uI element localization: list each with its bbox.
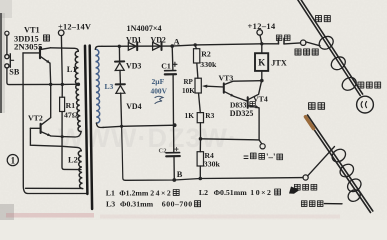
potentiometer RP (195, 78, 201, 93)
transformer winding L1 lower half (76, 84, 81, 131)
transistor VT4 (248, 81, 262, 108)
svg-text:RP: RP (184, 78, 194, 86)
junction: node A (170, 44, 174, 48)
junction: R2 branch on rail (194, 43, 197, 46)
label bamboo pole (top, CJK) (315, 16, 330, 22)
svg-text:K: K (258, 58, 265, 68)
diode VD4 (116, 84, 125, 126)
metal ring 2 on bottom pole (338, 162, 356, 180)
bamboo pole butt (brown) (306, 117, 314, 129)
svg-text:24×2: 24×2 (150, 189, 172, 198)
diode VD2 (153, 42, 162, 50)
svg-text:L1: L1 (106, 189, 115, 198)
label metal ring (top, CJK) (358, 82, 381, 88)
resistor R3 (197, 113, 203, 123)
wire: R1 top to +12V rail (61, 84, 63, 97)
label of output terminal (CJK) (244, 152, 283, 162)
wire: R1 bottom down to L2 centre tap (62, 112, 81, 170)
wire: VT4 emitter down (259, 108, 262, 144)
svg-text:L2: L2 (199, 188, 208, 197)
metal ring 3 on bottom pole (345, 176, 363, 194)
wire: RP to R3 (199, 93, 201, 113)
label 3DD15 or (14, 34, 50, 43)
resistor R1 (60, 97, 65, 111)
value 2uF 400V (blue pen) (151, 77, 168, 104)
battery terminal +12-14 (right) (257, 30, 263, 36)
wire: R4 top (199, 139, 201, 152)
transistor VT1 (23, 47, 51, 63)
transformer winding L2 (78, 151, 82, 189)
wire: SB terminal down to switch (6, 35, 8, 54)
svg-text:VT2: VT2 (28, 114, 43, 123)
scan edge artifacts (0, 0, 12, 18)
wire: R4 bottom to rail (199, 166, 201, 179)
transistor VT2 (30, 118, 51, 136)
wire: mid node to C2 (173, 125, 175, 152)
svg-text:L3: L3 (106, 200, 115, 209)
wire: R3 down to emitter node (199, 123, 201, 139)
winding data text line 1 (106, 187, 300, 198)
junction: VD column crossing mid wire (120, 125, 123, 128)
svg-text:VD4: VD4 (126, 102, 141, 111)
svg-text:WWW·DZ3W·: WWW·DZ3W· (58, 123, 238, 153)
svg-text:R2: R2 (201, 49, 211, 58)
transformer winding L1 upper half (75, 51, 78, 84)
junction: rail to L1 centre tap (77, 83, 81, 87)
svg-text:'–': '–' (266, 152, 276, 162)
svg-text:B: B (177, 170, 183, 179)
resistor R2 (194, 49, 200, 63)
wire: bottom rail B (125, 178, 303, 181)
terminal HV negative (303, 175, 308, 180)
wire: top rail A to relay node (172, 44, 278, 46)
C2 polarity mark (175, 148, 178, 151)
svg-text:1N4007×4: 1N4007×4 (127, 24, 162, 33)
svg-text:Φ1.2mm: Φ1.2mm (119, 189, 149, 198)
RP wiper arrow from VT3 base (202, 85, 224, 88)
circled 1 battery mark (7, 155, 18, 166)
junction: relay/+12-14 node on rail (260, 42, 263, 45)
bamboo pole (top electrode) (297, 0, 363, 96)
wire: top rectifier rail L3 to A (102, 45, 172, 47)
wire: HV positive to electrode ring (306, 42, 320, 46)
wire: A down to C1 (171, 46, 174, 70)
label metal ring (bottom, CJK) with pointer (301, 201, 342, 207)
wire: VT2 emitter to R1 line and L1 bottom (51, 132, 81, 137)
wire: rail to relay top (261, 44, 263, 53)
resistor R4 (197, 152, 203, 166)
junction: C2 on bottom rail (172, 178, 176, 182)
junction: VT1 emitter on +12V rail (49, 83, 52, 86)
capacitor C1 (165, 71, 176, 75)
svg-text:SB: SB (9, 68, 20, 77)
label D833 or (230, 101, 255, 110)
svg-text:JTX: JTX (271, 59, 287, 68)
svg-text:47Ω: 47Ω (64, 111, 78, 120)
svg-text:C2: C2 (159, 148, 167, 155)
relay contact (chuidian) (278, 38, 300, 44)
wire: L3 top lead to rectifier rail (95, 46, 102, 49)
wire: C2 to bottom rail (173, 156, 175, 180)
junction: mid node on A column (173, 123, 177, 127)
transformer winding L3 secondary (blue) (95, 49, 100, 123)
svg-text:400V: 400V (151, 86, 168, 95)
svg-text:R3: R3 (205, 111, 214, 120)
junction: R4 on bottom rail (199, 177, 203, 181)
svg-text:C1: C1 (161, 62, 171, 71)
wire: VD column down to bottom rail (122, 126, 125, 180)
wire: doubler mid horizontal (L3 bottom to A column) (103, 125, 176, 127)
wire: VT1 emitter down through rail to VT2 collector (49, 63, 52, 117)
wire: VT1 base down the left side to bottom loop (23, 53, 87, 194)
svg-text:1: 1 (11, 156, 16, 166)
battery terminal +12-14V (left) (58, 30, 64, 36)
label HV negative (CJK) (294, 184, 316, 190)
svg-text:2μF: 2μF (152, 77, 165, 86)
svg-text:2N3055: 2N3055 (14, 42, 43, 52)
svg-text:L3: L3 (105, 82, 114, 91)
wire: right terminal to rail (260, 35, 262, 44)
wire: L3 bottom lead to doubler mid node (96, 123, 103, 128)
metal ring 1 on bottom pole (330, 147, 348, 165)
svg-text:330k: 330k (200, 60, 217, 69)
wire: +12V horizontal rail to transformer tap (51, 83, 78, 85)
svg-text:VT1: VT1 (24, 26, 40, 35)
svg-text:10×2: 10×2 (250, 188, 272, 197)
svg-text:L2: L2 (68, 155, 78, 164)
svg-text:VD3: VD3 (126, 61, 141, 70)
svg-text:600–700: 600–700 (162, 200, 193, 209)
svg-text:Φ0.51mm: Φ0.51mm (214, 188, 248, 197)
diode VD3 (115, 46, 124, 84)
C1 polarity + (173, 62, 177, 66)
junction: VD3 branch on top rail (118, 45, 121, 48)
metal ring 1 on top pole (317, 34, 336, 52)
wire: HV negative to bottom pole (308, 147, 335, 176)
junction: collectors to relay (260, 79, 264, 83)
junction: emitter/R1 line (61, 135, 64, 138)
svg-text:330k: 330k (204, 160, 221, 169)
metal ring face-on at pole tip (357, 96, 374, 113)
winding data text line 2 (106, 200, 201, 209)
label contact (CJK) (276, 35, 290, 40)
wire: bottom loop inner line to L2 bottom (26, 187, 82, 189)
svg-text:+12–14: +12–14 (248, 22, 277, 31)
terminal HV positive (301, 40, 306, 45)
svg-text:Φ0.31mm: Φ0.31mm (120, 200, 154, 209)
svg-text:1K: 1K (185, 111, 195, 120)
bamboo pole (bottom electrode) (305, 115, 373, 213)
output terminal (pulse) (260, 144, 265, 149)
battery terminal (left, negative via SB) (5, 31, 9, 35)
wire: R2 to RP (197, 63, 198, 78)
wire: VT2 base loop to L2 top (30, 128, 81, 151)
svg-text:L1: L1 (67, 65, 77, 74)
svg-text:R1: R1 (66, 101, 76, 110)
transistor VT3 (224, 81, 262, 102)
wire: emitter node horizontal to VT4 emitter (201, 139, 260, 140)
junction: R3/R4/emitter node (199, 137, 203, 141)
wire: VT1 collector to L1 top (51, 48, 79, 52)
label bamboo pole (bottom, CJK) (309, 103, 325, 110)
label HV positive (CJK) (295, 49, 318, 55)
metal ring 3 on top pole (340, 75, 359, 93)
junction: R1/+12V terminal on rail (61, 83, 64, 86)
wire: relay bottom to collectors (261, 71, 263, 81)
svg-text:DD325: DD325 (230, 109, 254, 118)
metal ring 4 near bottom tip (346, 187, 363, 203)
metal ring 2 on top pole (329, 54, 348, 72)
transformer T core (85, 46, 92, 210)
capacitor C2 (166, 153, 180, 157)
wire: SB bottom down and right to +12V rail (7, 68, 51, 85)
wire: +12V terminal down to rail (60, 36, 63, 85)
svg-text:10K: 10K (182, 87, 195, 95)
pushbutton switch SB (5, 54, 14, 68)
relay coil K (255, 53, 268, 71)
diode VD1 (128, 42, 137, 50)
wire: C1 bottom to doubler mid node (172, 75, 174, 126)
wire: rail to R2 (195, 45, 196, 49)
